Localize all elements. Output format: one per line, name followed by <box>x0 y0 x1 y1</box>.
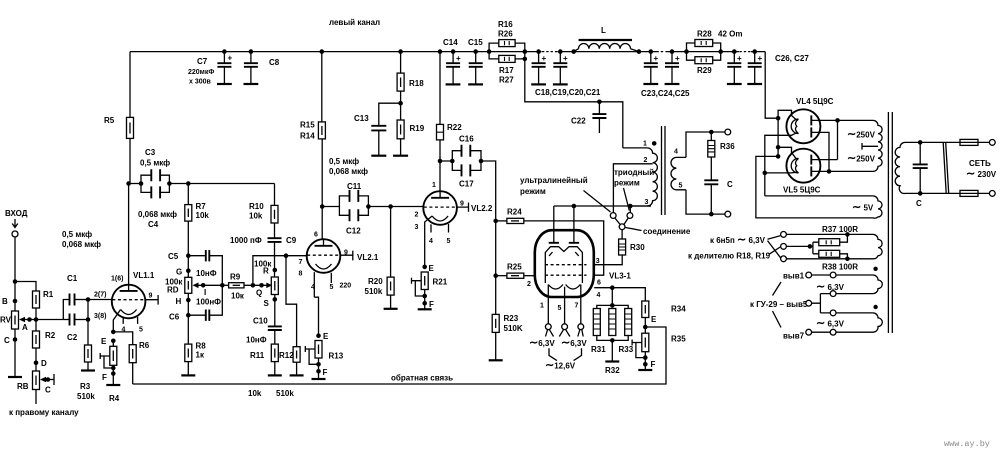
heater pointer lines <box>546 330 584 337</box>
wire R12 branch <box>286 256 297 347</box>
wire R38 right <box>840 254 848 259</box>
node R22 top <box>438 49 443 54</box>
OPT primary winding <box>623 148 658 206</box>
svg-text:8: 8 <box>299 271 303 278</box>
wire R10 column <box>274 184 276 206</box>
terminal output bottom <box>725 211 731 217</box>
PT primary winding <box>895 142 958 193</box>
svg-text:2: 2 <box>644 157 648 164</box>
capacitor C15 <box>473 49 478 54</box>
svg-text:C26, C27: C26, C27 <box>775 54 809 63</box>
svg-text:∼250V: ∼250V <box>847 153 876 165</box>
resistor R36 <box>710 132 712 141</box>
node R12 branch <box>284 253 289 258</box>
VL2.2 pin9 lead and bar <box>457 203 469 212</box>
capacitor C14 electrolytic <box>451 49 456 54</box>
capacitor C24 C25 electrolytic <box>670 49 675 54</box>
wire h1 row <box>786 233 873 235</box>
node R24 junction <box>493 219 498 224</box>
svg-text:10k: 10k <box>249 212 263 221</box>
node R25 junction <box>493 273 498 278</box>
node right plate <box>572 204 577 209</box>
terminal выв5 top <box>830 291 836 297</box>
resistor R32 middle <box>609 309 616 336</box>
node E VL2.1 <box>316 333 321 338</box>
resistor R29 <box>687 52 721 61</box>
svg-text:к делителю R18, R19: к делителю R18, R19 <box>688 252 771 261</box>
node G <box>186 268 191 273</box>
terminal выв1 <box>806 272 812 278</box>
svg-text:5: 5 <box>558 305 562 312</box>
screen lines <box>943 142 949 193</box>
svg-text:A: A <box>22 323 28 332</box>
node C16C17 right <box>479 159 484 164</box>
svg-text:+: + <box>654 54 659 63</box>
svg-text:C7: C7 <box>197 57 208 66</box>
svg-text:C16: C16 <box>459 135 474 144</box>
tube VL4 envelope <box>786 109 820 143</box>
node L left <box>571 49 576 54</box>
node F VL1.1 <box>111 371 116 376</box>
svg-text:42 Om: 42 Om <box>718 30 742 39</box>
wire screen pin3 <box>594 255 622 265</box>
resistor R15 R14 <box>318 122 325 139</box>
svg-text:C13: C13 <box>354 114 369 123</box>
PT HV winding <box>829 120 882 171</box>
svg-text:R2: R2 <box>45 331 56 340</box>
ground R23 <box>489 359 503 361</box>
node C22 <box>597 100 602 105</box>
svg-text:к ГУ-29 – выв5: к ГУ-29 – выв5 <box>750 300 808 309</box>
svg-text:220мкФ: 220мкФ <box>188 69 214 76</box>
svg-text:6: 6 <box>314 232 318 239</box>
VL4 filament bottom lead <box>765 133 797 196</box>
node h2 split <box>808 244 813 249</box>
switch blades <box>615 218 628 225</box>
wire RV top <box>14 282 16 312</box>
capacitor C10 <box>268 326 282 330</box>
wire common to R30 <box>621 230 623 239</box>
input terminal <box>12 231 18 237</box>
wire выв5 split <box>812 294 831 313</box>
svg-text:R33: R33 <box>619 345 634 354</box>
VL4 anode 2 <box>810 127 812 137</box>
terminal pin5 <box>562 324 568 330</box>
wire input down <box>14 237 16 282</box>
svg-text:выв7: выв7 <box>783 332 805 341</box>
svg-text:режим: режим <box>520 187 546 196</box>
VL3-1 control grid dashed <box>545 274 587 276</box>
svg-text:C18,C19,C20,C21: C18,C19,C20,C21 <box>535 88 601 97</box>
svg-text:+: + <box>563 54 568 63</box>
resistor R8 <box>185 344 192 362</box>
svg-text:F: F <box>102 373 107 382</box>
PT 6,3V winding 2 <box>873 275 882 294</box>
svg-text:выв1: выв1 <box>783 272 805 281</box>
svg-text:х 300в: х 300в <box>189 79 212 86</box>
svg-text:R23: R23 <box>504 314 519 323</box>
node C1C2 right top <box>86 297 91 302</box>
potentiometer RB <box>33 371 40 390</box>
svg-text:C5: C5 <box>168 252 179 261</box>
VL3-1 plate leads <box>554 206 574 243</box>
svg-text:F: F <box>651 360 656 369</box>
wire row to R10 corner <box>169 183 274 185</box>
fuse top <box>960 139 978 145</box>
svg-text:9: 9 <box>460 201 464 208</box>
terminal выв1 mid <box>830 272 836 278</box>
resistor R37 <box>819 239 840 246</box>
resistor R28 <box>684 49 689 54</box>
wire R21 to ground <box>424 290 426 310</box>
resistor R34 <box>642 301 649 318</box>
wire R20 to ground <box>390 295 392 309</box>
VL3-1 beam structure <box>545 247 582 283</box>
phase dot w3 <box>873 305 877 309</box>
VL2.1 grid dashed <box>307 254 340 256</box>
wire h3 row <box>786 258 873 260</box>
ground RV <box>8 376 22 378</box>
capacitor C19 electrolytic <box>558 49 563 54</box>
node R top <box>273 268 278 273</box>
capacitor C18 electrolytic <box>536 49 541 54</box>
svg-text:5: 5 <box>330 284 334 291</box>
resistor R10 <box>271 205 278 223</box>
tube VL3-1 envelope <box>535 230 594 297</box>
node C11C12 right <box>366 204 371 209</box>
svg-text:∼ 5V: ∼ 5V <box>852 202 874 214</box>
node R4 bottom <box>111 366 116 371</box>
svg-text:R4: R4 <box>109 394 120 403</box>
PT core <box>888 112 892 333</box>
node D <box>34 361 39 366</box>
resistor R12 <box>293 347 300 363</box>
svg-text:∼250V: ∼250V <box>847 129 876 141</box>
wire w3 top row <box>836 312 873 314</box>
node R37 right <box>845 232 850 237</box>
svg-text:3: 3 <box>645 199 649 206</box>
svg-text:F: F <box>429 300 434 309</box>
svg-text:R34: R34 <box>671 305 686 314</box>
svg-text:D: D <box>41 359 47 368</box>
wire B+ left column <box>129 52 131 118</box>
svg-text:0,5 мкф: 0,5 мкф <box>62 230 92 239</box>
wire A row <box>30 319 64 321</box>
svg-text:R26: R26 <box>498 30 513 39</box>
resistor R5 <box>127 117 134 138</box>
svg-text:R32: R32 <box>605 366 620 375</box>
terminal pin1 <box>545 324 551 330</box>
node fil bottom bus <box>763 171 768 176</box>
svg-text:0,068 мкф: 0,068 мкф <box>329 167 368 176</box>
node C11C12 left <box>320 204 325 209</box>
wire C10 to R11 <box>274 330 276 344</box>
VL2.2 grid dashed <box>424 206 457 208</box>
OPT phase dot <box>652 141 657 146</box>
svg-text:1: 1 <box>432 182 436 189</box>
svg-text:СЕТЬ: СЕТЬ <box>969 159 991 168</box>
potentiometer R <box>271 277 278 295</box>
svg-text:B: B <box>2 297 8 306</box>
wire feedback <box>133 327 666 384</box>
svg-text:C14: C14 <box>443 38 458 47</box>
node wiper-box junction <box>220 283 225 288</box>
wire RV to ground <box>14 329 16 377</box>
tube VL2.1 envelope <box>307 239 341 273</box>
resistor R9 <box>222 284 228 286</box>
wire to VL2.2 grid <box>368 206 423 208</box>
resistor R20 <box>387 277 394 295</box>
svg-text:2(7): 2(7) <box>94 292 106 299</box>
wire R24 to grid2 <box>524 221 604 275</box>
capacitor C7 electrolytic <box>222 49 227 54</box>
node B <box>13 299 18 304</box>
capacitor C22 <box>598 102 600 114</box>
svg-text:3: 3 <box>415 224 419 231</box>
wire C1C2 right vertical <box>87 300 89 346</box>
tube VL2.2 envelope <box>423 191 457 225</box>
capacitor C26 electrolytic <box>732 49 737 54</box>
capacitor C9 <box>268 238 282 242</box>
resistor R4 trimmer <box>110 346 117 365</box>
wire R6 to feedback <box>132 363 134 384</box>
VL5 filament <box>791 158 798 173</box>
node E VL1.1 <box>111 339 116 344</box>
resistor R19 <box>397 120 404 139</box>
wire выв7 row <box>812 331 873 333</box>
VL4 filament top lead <box>778 110 796 147</box>
svg-text:C23,C24,C25: C23,C24,C25 <box>641 89 690 98</box>
svg-text:5: 5 <box>679 183 683 190</box>
wire VL2.1 plate column <box>321 139 323 240</box>
node C5 junction <box>186 253 191 258</box>
node R35 bottom <box>643 355 648 360</box>
ground C13 <box>371 155 386 157</box>
wire R25 to grid1 <box>524 275 535 277</box>
VL1.1 cathode arc <box>121 310 137 315</box>
inductor L <box>574 49 579 52</box>
wire R18 top <box>400 52 402 74</box>
svg-text:3: 3 <box>596 258 600 265</box>
svg-text:C3: C3 <box>145 148 156 157</box>
svg-text:3(8): 3(8) <box>94 313 106 320</box>
wire R2 top <box>35 320 37 332</box>
svg-text:+: + <box>456 54 461 63</box>
svg-text:4: 4 <box>674 149 678 156</box>
node cathode junction <box>111 330 116 335</box>
VL2.1 heater legs <box>314 272 331 297</box>
pointer lines heater labels <box>768 236 781 258</box>
node F VL2.1 <box>316 369 321 374</box>
VL1.1 pin9 lead and bar <box>145 295 158 305</box>
resistor R21 trimmer <box>421 272 428 290</box>
svg-text:R3: R3 <box>80 382 91 391</box>
resistor R30 <box>619 239 626 255</box>
node fil top VL5 <box>776 145 781 150</box>
wire h2 to R37 R38 <box>786 242 818 254</box>
terminal output top <box>725 129 731 135</box>
node R18 R19 C13 <box>398 101 403 106</box>
resistor R25 <box>496 275 507 277</box>
svg-text:+: + <box>675 54 680 63</box>
svg-text:R36: R36 <box>720 142 735 151</box>
VL4 filament <box>791 119 798 134</box>
resistor R18 <box>397 73 404 91</box>
wire R37 right <box>840 234 848 242</box>
svg-text:F: F <box>323 368 328 377</box>
capacitor C16 <box>440 151 481 161</box>
pointer выв1 line <box>773 282 782 296</box>
VL4 anode 1 <box>810 115 812 125</box>
svg-text:C22: C22 <box>571 117 586 126</box>
fuse bottom <box>960 190 978 196</box>
wire cathode to R6 <box>113 332 132 345</box>
svg-text:R38 100R: R38 100R <box>822 263 858 272</box>
terminal h2 <box>781 244 787 250</box>
resistor R13 trimmer <box>315 341 322 359</box>
capacitor C27 electrolytic <box>752 49 757 54</box>
wire plate bus <box>554 205 651 207</box>
node trio top <box>610 303 615 308</box>
wire R34 to E <box>644 318 646 334</box>
wire R19 to ground <box>400 139 402 156</box>
wire trio to ground <box>611 340 613 361</box>
OPT secondary winding <box>671 157 686 189</box>
svg-text:R28: R28 <box>697 30 712 39</box>
svg-text:C: C <box>4 336 10 345</box>
node C1C2 right bottom <box>86 317 91 322</box>
node I <box>201 283 206 288</box>
PT 6,3V winding 1 <box>873 234 882 258</box>
svg-text:R17: R17 <box>499 66 514 75</box>
svg-text:C: C <box>727 180 733 189</box>
svg-text:обратная связь: обратная связь <box>391 374 453 383</box>
RV wiper arrow <box>21 319 30 321</box>
VL2.2 cathode arc <box>432 216 448 221</box>
terminal mains bottom <box>989 191 995 197</box>
svg-text:C: C <box>45 386 51 395</box>
node B+ takeoff <box>523 57 528 62</box>
svg-text:L: L <box>601 26 606 35</box>
wire S to C10 <box>274 295 276 327</box>
resistor R3 <box>85 345 92 362</box>
wire C1C2 left vertical <box>63 300 69 320</box>
wire anode bus vertical <box>837 120 839 159</box>
wire R5 to plate node <box>129 138 130 284</box>
wire R18 bottom <box>400 91 402 120</box>
svg-text:1: 1 <box>643 141 647 148</box>
ground R32 <box>605 360 619 362</box>
svg-text:R30: R30 <box>630 243 645 252</box>
svg-text:510K: 510K <box>504 324 523 333</box>
svg-text:4: 4 <box>597 292 601 299</box>
resistor R38 <box>819 250 840 257</box>
svg-text:RD: RD <box>167 286 179 295</box>
svg-text:R1: R1 <box>43 290 54 299</box>
svg-text:R25: R25 <box>507 263 522 272</box>
resistor R33 <box>625 309 632 336</box>
capacitor C6 <box>188 314 205 316</box>
VL3-1 screen grid dashed <box>545 264 587 266</box>
wire plate node to C3C4 <box>129 183 141 185</box>
svg-text:C1: C1 <box>67 274 78 283</box>
svg-text:+: + <box>228 54 233 63</box>
svg-text:C6: C6 <box>169 313 180 322</box>
svg-text:510k: 510k <box>365 287 383 296</box>
svg-text:C2: C2 <box>67 333 78 342</box>
wire R15R14 top <box>321 52 323 139</box>
svg-text:R27: R27 <box>499 76 514 85</box>
svg-text:R8: R8 <box>196 342 207 351</box>
wire fil bottom to 5V <box>765 195 847 197</box>
pointer ультралинейный <box>584 191 611 213</box>
wire R36 to C <box>710 157 712 180</box>
node C6 junction <box>186 313 191 318</box>
svg-text:2: 2 <box>527 281 531 288</box>
input arrow <box>12 219 18 228</box>
capacitor C1 <box>70 294 75 306</box>
node R16 box right <box>523 49 528 54</box>
RB wiper terminal bar <box>53 374 55 385</box>
capacitor C12 <box>339 207 368 216</box>
svg-text:R16: R16 <box>498 20 513 29</box>
pointer триодный <box>624 188 630 211</box>
capacitor C3 <box>141 175 169 183</box>
PT 5V winding <box>847 196 882 218</box>
node S <box>273 297 278 302</box>
wire RD to C6 row <box>187 293 189 315</box>
wire cathode to E <box>314 297 318 336</box>
wire R7 bottom <box>187 221 189 256</box>
resistor R7 <box>185 205 192 222</box>
resistor R17 R27 <box>489 52 525 59</box>
svg-text:C: C <box>916 199 922 208</box>
resistor R23 <box>492 314 499 332</box>
node R28 box right <box>718 49 723 54</box>
svg-text:VL2.2: VL2.2 <box>471 204 493 213</box>
ground R12 <box>290 374 304 376</box>
capacitor C2 <box>70 314 75 326</box>
svg-text:1к: 1к <box>196 351 205 360</box>
wire secondary bottom to output <box>686 190 725 214</box>
wire driver output column <box>481 161 496 314</box>
VL2.2 plate <box>431 197 449 199</box>
wire C13 branch <box>379 103 401 125</box>
switch common <box>619 224 625 230</box>
capacitor C23 electrolytic <box>649 49 654 54</box>
resistor R24 <box>496 220 507 222</box>
VL5 anode 1 <box>810 155 812 165</box>
potentiometer RD <box>185 277 192 293</box>
terminal h3 <box>781 256 787 262</box>
ground R3 <box>81 369 95 371</box>
svg-text:E: E <box>651 315 657 324</box>
OPT tap2 wire <box>613 164 652 213</box>
wire G to RD <box>187 256 189 278</box>
svg-text:10нФ: 10нФ <box>196 269 217 278</box>
svg-text:www.ay.by: www.ay.by <box>944 439 990 449</box>
svg-text:C10: C10 <box>253 317 268 326</box>
svg-text:RB: RB <box>17 382 29 391</box>
svg-text:0,068 мкф: 0,068 мкф <box>138 210 177 219</box>
svg-text:соединение: соединение <box>643 227 691 236</box>
terminal выв5 <box>806 300 812 306</box>
svg-text:R12: R12 <box>279 351 294 360</box>
svg-text:0,5 мкф: 0,5 мкф <box>140 159 170 168</box>
node F VL2.2 <box>422 301 427 306</box>
bracket 12,6V <box>549 348 582 360</box>
tube VL1.1 envelope <box>112 285 146 319</box>
